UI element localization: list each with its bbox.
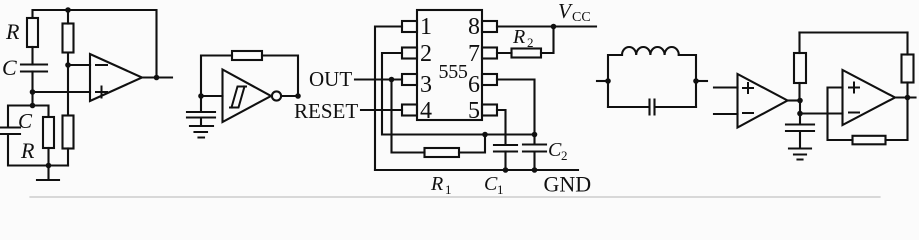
wire output B (895, 96, 916, 98)
node input (198, 93, 204, 99)
svg-text:1: 1 (445, 182, 452, 197)
svg-text:5: 5 (468, 98, 480, 124)
wire OUT junction to R1 (392, 80, 425, 153)
svg-text:1: 1 (497, 182, 504, 197)
schmitt inverter U2 (223, 70, 272, 123)
svg-text:2: 2 (527, 35, 534, 50)
IC U3 555 body (417, 10, 482, 120)
pin 6 (482, 74, 497, 85)
wire RESET to pin 4 (361, 109, 402, 111)
wire capacitor to bottom rail (8, 134, 68, 166)
wire pin 8 to Vcc (497, 25, 596, 27)
wire tank top right (679, 55, 696, 107)
svg-text:7: 7 (468, 41, 480, 67)
node Vcc (551, 24, 557, 30)
wire inputs A (714, 88, 738, 115)
svg-text:6: 6 (468, 72, 480, 98)
node output (295, 93, 301, 99)
wire output B to feedback resistor (886, 98, 908, 141)
node ground junction (46, 163, 52, 169)
wire tank bottom left (608, 106, 648, 108)
capacitor C (21, 65, 47, 72)
resistor feedback (232, 51, 262, 60)
svg-text:V: V (558, 0, 573, 23)
wire tank left side (608, 55, 622, 107)
wire stub right (696, 80, 707, 82)
node output B (905, 95, 911, 101)
wire node A down (799, 101, 801, 114)
wire C1 to ground rail (504, 152, 506, 171)
svg-text:1: 1 (420, 14, 432, 40)
svg-text:C: C (484, 173, 498, 195)
node output A (797, 98, 803, 104)
faint page artifact (30, 196, 880, 198)
wire resistor to bottom rail (47, 148, 49, 166)
resistor divider upper (63, 24, 74, 53)
wire node to capacitor branch (8, 106, 33, 128)
resistor feedback B (853, 136, 886, 145)
node capacitor (797, 111, 803, 117)
resistor left vertical (794, 53, 806, 83)
wire R1 to trigger row (459, 135, 485, 153)
wire feedback to noninverting B (828, 88, 853, 141)
svg-text:R: R (5, 19, 20, 44)
capacitor to ground (786, 114, 814, 149)
capacitor C lower (0, 128, 20, 135)
wire stub left (597, 80, 608, 82)
svg-text:R: R (430, 173, 443, 195)
node top rail (65, 7, 71, 13)
svg-text:CC: CC (572, 10, 591, 25)
svg-text:4: 4 (420, 98, 432, 124)
pin 2 (402, 48, 417, 59)
wire divider lower to bottom rail (67, 149, 69, 166)
wire ground rail (375, 169, 578, 171)
wire C to node (31, 72, 33, 106)
node noninverting (30, 89, 36, 95)
inductor L (622, 47, 679, 55)
wire pin 6 to trigger row (497, 80, 535, 135)
op-amp U1 (90, 54, 142, 101)
node inverting (65, 62, 71, 68)
ground earth B (789, 149, 811, 160)
wire R to C (31, 47, 33, 65)
bubble (272, 91, 281, 100)
pin 4 (402, 105, 417, 116)
op-amp U4 (738, 74, 788, 128)
node trigger R1 (482, 132, 488, 138)
pin 1 (402, 21, 417, 32)
pin 5 (482, 105, 497, 116)
wire output (281, 95, 298, 97)
capacitor tank (650, 100, 655, 115)
wire noninverting input (33, 91, 91, 93)
svg-text:2: 2 (561, 148, 568, 163)
node output (154, 75, 160, 81)
svg-text:C: C (18, 109, 33, 133)
wire divider (67, 53, 69, 116)
svg-text:GND: GND (544, 172, 592, 197)
capacitor C1 (494, 145, 517, 152)
svg-text:2: 2 (420, 41, 432, 67)
wire top to divider resistor (67, 10, 69, 24)
resistor R2 (512, 49, 542, 58)
svg-text:OUT: OUT (309, 67, 352, 91)
op-amp U5 (843, 70, 896, 125)
svg-text:C: C (2, 55, 17, 80)
resistor lower-left (43, 117, 54, 148)
resistor divider lower (63, 116, 74, 149)
pin 8 (482, 21, 497, 32)
wire output (142, 76, 172, 78)
wire resistor to top rail (798, 33, 800, 54)
node C2 ground (532, 167, 538, 173)
wire resistor to output B (906, 83, 908, 98)
wire R2 to Vcc (541, 27, 554, 54)
wire node to inverting B (800, 112, 843, 114)
resistor R1 (425, 148, 460, 157)
wire pin 2 to trigger row (382, 53, 535, 135)
svg-text:C: C (548, 139, 562, 161)
pin 7 (482, 48, 497, 59)
wire rail to resistor right (906, 33, 908, 55)
svg-text:RESET: RESET (294, 99, 358, 123)
ground (37, 166, 59, 181)
ground earth (190, 126, 213, 138)
node tank left (605, 78, 611, 84)
wire input (201, 95, 223, 97)
capacitor C2 (523, 135, 546, 171)
svg-text:3: 3 (420, 72, 432, 98)
node tank right (693, 78, 699, 84)
wire node to resistor up (798, 83, 800, 101)
wire feedback top left (201, 56, 232, 97)
svg-text:555: 555 (439, 61, 468, 83)
hysteresis symbol (230, 87, 246, 108)
wire inverting input (68, 64, 90, 66)
node pin6 C2 (532, 132, 538, 138)
wire pin 5 to C1 (497, 110, 506, 145)
node lower (30, 103, 36, 109)
resistor right vertical (902, 55, 914, 83)
wire tank bottom right (657, 106, 697, 108)
svg-text:R: R (512, 26, 525, 48)
wire pin 1 to ground rail (375, 27, 402, 171)
wire pin 7 to R2 (497, 52, 512, 54)
wire top rail (800, 31, 908, 33)
wire output A (788, 99, 801, 101)
wire OUT to pin 3 (355, 78, 402, 80)
node C1 ground (503, 167, 509, 173)
resistor R (27, 18, 38, 47)
wire feedback top right (262, 56, 298, 97)
capacitor input (187, 96, 215, 126)
svg-text:8: 8 (468, 14, 480, 40)
node OUT junction (389, 77, 395, 83)
svg-text:R: R (20, 138, 35, 163)
pin 3 (402, 74, 417, 85)
wire node to resistor branch (33, 106, 49, 118)
wire feedback top (33, 10, 157, 78)
